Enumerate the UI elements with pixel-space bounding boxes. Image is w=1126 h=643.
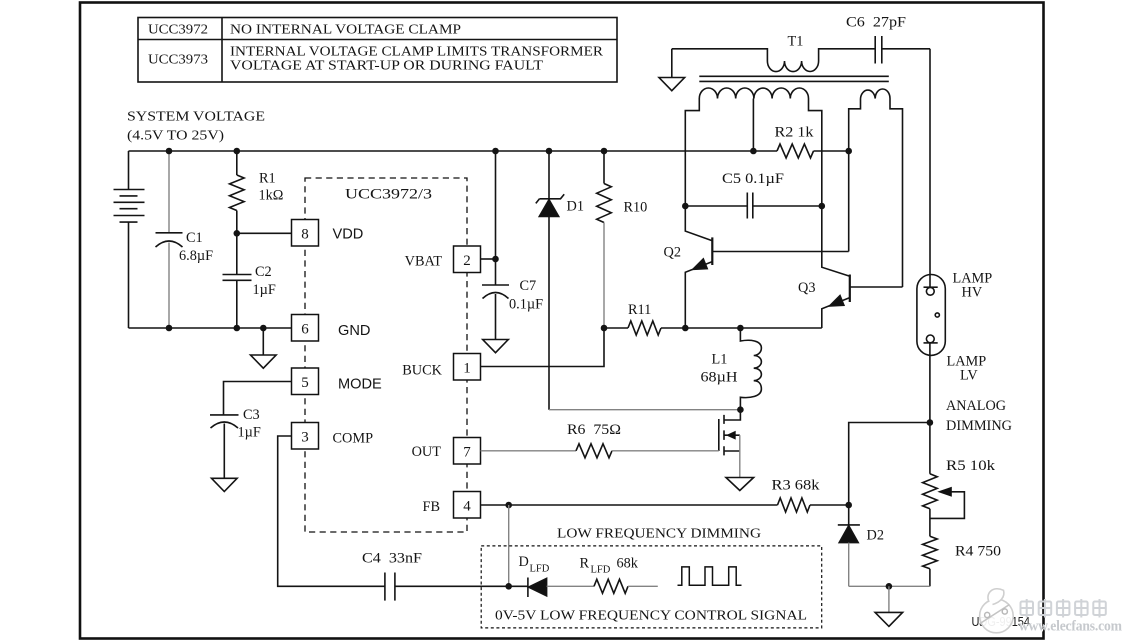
wire RLFD to source: [628, 585, 658, 587]
junction LFD node: [505, 583, 512, 590]
junction C2 bottom: [234, 325, 241, 332]
table UCC3972/UCC3973 grid: [138, 18, 617, 83]
svg-text:OUT: OUT: [412, 444, 442, 460]
svg-text:0V-5V LOW FREQUENCY CONTROL SI: 0V-5V LOW FREQUENCY CONTROL SIGNAL: [495, 609, 807, 624]
transistor Q2: [685, 206, 848, 328]
diode D2: [838, 505, 860, 586]
svg-text:5: 5: [301, 375, 309, 391]
resistor R11: [604, 321, 685, 335]
wire pin2 VBAT: [481, 258, 496, 260]
svg-text:VOLTAGE AT START-UP OR DURING: VOLTAGE AT START-UP OR DURING FAULT: [230, 59, 543, 74]
pin 8 VDD box: [292, 220, 319, 247]
junction R10 rail: [601, 148, 608, 155]
svg-text:C7: C7: [520, 278, 537, 294]
label ANALOG DIMMING: [946, 398, 1012, 434]
svg-text:3: 3: [301, 429, 309, 445]
svg-text:BUCK: BUCK: [402, 363, 442, 379]
transformer T1 primary winding: [672, 49, 875, 72]
svg-text:VDD: VDD: [333, 227, 364, 243]
transistor Q3: [822, 206, 903, 328]
svg-text:www.elecfans.com: www.elecfans.com: [1019, 618, 1122, 634]
watermark url text: [1019, 618, 1123, 635]
svg-text:GND: GND: [338, 323, 370, 339]
junction C5 left: [682, 203, 689, 210]
svg-text:FB: FB: [423, 499, 441, 515]
wire VDD to pin 8: [237, 232, 292, 234]
capacitor C1: [156, 151, 183, 328]
transformer T1 core: [699, 76, 889, 81]
svg-text:C1: C1: [186, 230, 203, 246]
wire FB to LFD node: [508, 505, 510, 586]
svg-text:SYSTEM VOLTAGE: SYSTEM VOLTAGE: [127, 110, 265, 125]
svg-text:Q2: Q2: [664, 244, 681, 260]
resistor R5 potentiometer: [923, 423, 965, 537]
junction R1 top: [234, 148, 241, 155]
svg-text:7: 7: [463, 444, 471, 460]
svg-text:MODE: MODE: [338, 377, 382, 393]
wire secondary center tap: [752, 99, 754, 152]
ground at C3: [212, 478, 238, 491]
battery BT1: [114, 151, 145, 328]
svg-text:T1: T1: [788, 34, 804, 50]
wire R6 to gate: [612, 450, 719, 452]
svg-text:C4 33nF: C4 33nF: [362, 551, 422, 567]
svg-text:LFD: LFD: [530, 564, 550, 575]
wire pin4 FB line: [481, 504, 778, 506]
wire emitter rail: [685, 327, 822, 329]
svg-text:R5 10k: R5 10k: [946, 458, 996, 474]
junction ground tap: [260, 325, 267, 332]
lamp CCFL: [917, 275, 945, 356]
wire pin1 BUCK to R10/R11 node: [481, 328, 605, 367]
wire feedback left end: [849, 99, 861, 252]
resistor RLFD: [594, 579, 628, 593]
pin 6 GND box: [292, 315, 319, 342]
ground at C7: [483, 340, 509, 353]
pin 2 VBAT box: [454, 246, 481, 273]
wire top supply rail: [129, 150, 754, 152]
wire HV line to lamp: [929, 49, 931, 287]
svg-text:LFD: LFD: [591, 565, 611, 576]
junction bottom ground node: [886, 583, 893, 590]
junction D1 rail: [546, 148, 553, 155]
svg-text:(4.5V TO 25V): (4.5V TO 25V): [127, 129, 224, 144]
svg-text:R1: R1: [259, 171, 276, 187]
resistor R10: [597, 151, 612, 328]
svg-text:6.8µF: 6.8µF: [179, 248, 213, 264]
ground at M1 source: [726, 478, 754, 491]
ground at T1 primary: [659, 49, 685, 91]
capacitor C2: [223, 233, 252, 328]
svg-text:2: 2: [463, 253, 471, 269]
svg-text:D: D: [519, 554, 529, 570]
capacitor C4: [385, 573, 395, 601]
svg-text:C3: C3: [243, 407, 260, 423]
svg-text:HV: HV: [962, 285, 983, 301]
transistor M1 nmos: [719, 410, 741, 478]
capacitor C5: [685, 193, 822, 219]
transformer T1 secondary winding: [699, 88, 808, 99]
junction C1 bottom: [166, 325, 173, 332]
resistor R6: [576, 444, 612, 458]
svg-text:R3 68k: R3 68k: [772, 478, 821, 494]
svg-text:Q3: Q3: [798, 280, 815, 296]
pin 4 FB box: [454, 492, 481, 519]
label DLFD: [519, 554, 550, 575]
svg-text:UCC3973: UCC3973: [148, 53, 208, 68]
wire D2/R4 bottom net: [849, 585, 930, 587]
resistor R3: [778, 498, 811, 512]
capacitor C6: [875, 36, 930, 64]
ground at divider: [875, 586, 903, 626]
junction center tap rail: [750, 148, 757, 155]
svg-text:R4 750: R4 750: [955, 544, 1001, 560]
svg-text:68k: 68k: [617, 556, 639, 572]
junction R11 left: [601, 325, 608, 332]
wire pin5 MODE to C3: [224, 382, 292, 416]
transformer T1 feedback winding: [861, 89, 891, 98]
wire pin3 COMP to C4: [278, 436, 385, 586]
svg-text:LOW FREQUENCY DIMMING: LOW FREQUENCY DIMMING: [557, 527, 761, 542]
svg-text:UCC3972/3: UCC3972/3: [345, 187, 432, 203]
wire ground rail: [129, 327, 292, 329]
junction VBAT pin2: [492, 256, 499, 263]
junction R1/C2/VDD node: [234, 230, 241, 237]
capacitor C3: [210, 415, 239, 478]
svg-text:C5 0.1µF: C5 0.1µF: [722, 171, 784, 187]
svg-text:D1: D1: [567, 199, 584, 215]
op-amp U1 UCC3972/3 dashed outline: [305, 178, 467, 532]
svg-text:DIMMING: DIMMING: [946, 418, 1012, 434]
pin 5 MODE box: [292, 368, 319, 395]
junction R3/D2 node: [845, 502, 852, 509]
svg-text:R2 1k: R2 1k: [775, 125, 815, 141]
svg-text:1µF: 1µF: [253, 282, 276, 298]
label RLFD 68k: [580, 556, 639, 576]
pulse waveform symbol: [678, 567, 742, 585]
svg-text:0.1µF: 0.1µF: [509, 297, 543, 313]
wire R3 right: [810, 504, 849, 506]
resistor R1: [230, 151, 245, 233]
wire VBAT rail drop: [495, 151, 497, 285]
svg-text:4: 4: [463, 498, 471, 514]
junction L1 top node: [737, 325, 744, 332]
wire pin7 OUT to R6: [481, 450, 577, 452]
label LAMP HV: [953, 271, 993, 301]
svg-text:C2: C2: [255, 264, 272, 280]
label LAMP LV: [947, 354, 987, 384]
svg-text:L1: L1: [712, 352, 728, 368]
pin 3 COMP box: [292, 423, 319, 450]
wire secondary right end: [809, 99, 822, 207]
svg-text:COMP: COMP: [333, 431, 374, 447]
junction L1 bottom node: [737, 406, 744, 413]
junction R2 right node: [845, 148, 852, 155]
junction Q2 emitter node: [682, 325, 689, 332]
svg-text:VBAT: VBAT: [405, 254, 443, 270]
junction lamp bottom: [927, 419, 934, 426]
junction FB node: [505, 502, 512, 509]
svg-text:68µH: 68µH: [701, 370, 738, 386]
wire secondary left end: [685, 99, 699, 207]
ground at pin6 rail: [251, 328, 277, 368]
svg-text:C6 27pF: C6 27pF: [846, 15, 906, 31]
wire feedback right end: [890, 99, 903, 288]
svg-text:D2: D2: [867, 528, 884, 544]
junction C5 right: [819, 203, 826, 210]
svg-text:UCC3972: UCC3972: [148, 23, 208, 38]
diode D1 zener: [536, 151, 741, 410]
svg-text:6: 6: [301, 321, 309, 337]
pin 7 OUT box: [454, 438, 481, 465]
pin 1 BUCK box: [454, 354, 481, 381]
svg-text:INTERNAL VOLTAGE CLAMP LIMITS: INTERNAL VOLTAGE CLAMP LIMITS TRANSFORME…: [230, 45, 604, 60]
svg-text:R6 75Ω: R6 75Ω: [567, 422, 621, 438]
svg-text:1kΩ: 1kΩ: [259, 188, 284, 204]
svg-text:1: 1: [463, 360, 471, 376]
svg-text:R11: R11: [628, 302, 651, 318]
wire lamp bottom to divider: [849, 343, 930, 505]
svg-text:ANALOG: ANALOG: [946, 398, 1006, 414]
svg-text:R: R: [580, 556, 590, 572]
svg-text:R10: R10: [624, 200, 648, 216]
svg-text:NO INTERNAL VOLTAGE CLAMP: NO INTERNAL VOLTAGE CLAMP: [230, 23, 461, 38]
junction C1 top: [166, 148, 173, 155]
capacitor C7: [482, 285, 509, 340]
watermark elecfans logo: [979, 589, 1014, 633]
svg-text:1µF: 1µF: [238, 425, 261, 441]
svg-text:8: 8: [301, 226, 309, 242]
junction VBAT rail: [492, 148, 499, 155]
watermark chinese text: [1021, 599, 1106, 618]
diode DLFD: [528, 578, 594, 598]
inductor L1: [740, 328, 761, 410]
svg-text:LV: LV: [960, 368, 978, 384]
resistor R2: [753, 144, 848, 158]
resistor R4: [923, 536, 938, 569]
wire C4 to LFD node: [395, 585, 528, 587]
LFD dashed box: [481, 546, 822, 628]
